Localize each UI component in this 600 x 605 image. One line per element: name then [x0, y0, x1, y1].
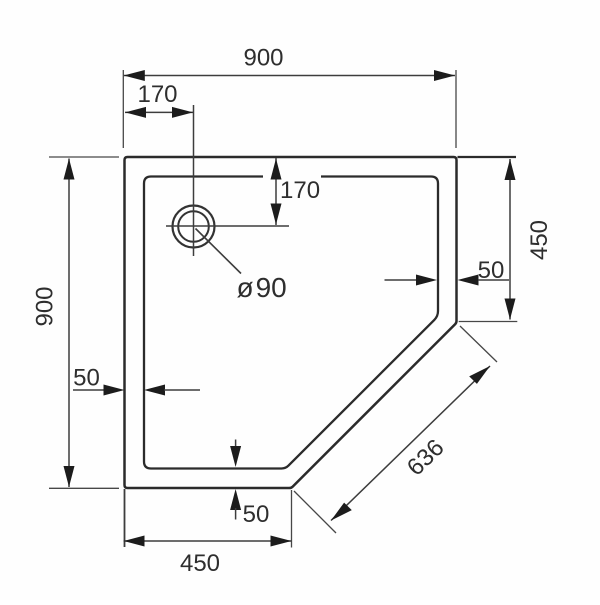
- dim 50 left: tail left: [73, 389, 107, 391]
- svg-text:450: 450: [180, 550, 220, 577]
- dim 50 bottom: tail top: [235, 440, 237, 450]
- dim 900 left: top arrow: [64, 159, 75, 180]
- dim 900 left: extension top: [49, 156, 119, 158]
- dim 50 left: right arrow: [144, 385, 165, 396]
- dim 900 top: left arrow: [124, 70, 145, 81]
- dim 50 bottom: bottom arrow: [230, 489, 241, 510]
- dim 900 top: extension right: [455, 70, 457, 148]
- dim 50 right: right arrow: [458, 275, 479, 286]
- tray inner outline (gap in top edge for dimension): [144, 177, 438, 469]
- dim 50 left: left arrow: [104, 385, 125, 396]
- drain leader line: [196, 229, 242, 274]
- dim 900 left: bottom arrow: [64, 466, 75, 487]
- dim 450 bottom: line: [124, 540, 292, 542]
- dim 50 right: tail left: [385, 279, 419, 281]
- dim 450 right: extension bottom: [459, 321, 518, 323]
- dim 900 top: right arrow: [434, 70, 455, 81]
- dim 50 bottom: tail bottom: [235, 508, 237, 520]
- svg-text:ø90: ø90: [237, 272, 287, 303]
- dim 450 right: extension top (edge continuation): [458, 156, 517, 158]
- drain vertical centerline: [193, 105, 195, 256]
- dim 900 top: extension left: [122, 70, 124, 148]
- svg-text:50: 50: [478, 257, 505, 284]
- svg-text:900: 900: [243, 45, 283, 72]
- svg-text:50: 50: [73, 365, 100, 392]
- dim 900 top: line: [124, 75, 455, 77]
- dim 170 top: right arrow: [172, 107, 193, 118]
- dim 50 left: tail right: [164, 389, 200, 391]
- dim 636 diagonal: extension bottom: [294, 491, 336, 533]
- dim 450 bottom: extension right: [291, 490, 293, 548]
- dim 900 left: line: [68, 159, 70, 488]
- dim 170 top: left arrow: [125, 107, 146, 118]
- svg-text:170: 170: [280, 177, 320, 204]
- svg-text:450: 450: [526, 220, 553, 260]
- drain inner circle: [178, 211, 209, 242]
- svg-text:50: 50: [243, 501, 270, 528]
- dim 636 diagonal: upper arrow: [469, 366, 490, 384]
- dim 170 vertical: line: [275, 158, 277, 225]
- tray outer outline: [125, 157, 457, 488]
- dim 450 bottom: left arrow: [124, 536, 145, 547]
- dim 450 bottom: right arrow: [271, 536, 292, 547]
- dim 900 left: extension bottom: [49, 487, 119, 489]
- dim 450 bottom: extension left (edge continuation): [124, 489, 126, 547]
- dim 170 top: line: [125, 111, 193, 113]
- dim 50 right: tail right: [478, 279, 509, 281]
- svg-text:900: 900: [32, 286, 59, 326]
- dim 636 diagonal: extension top: [460, 326, 497, 362]
- dim 450 right: line: [509, 159, 511, 320]
- dim 450 right: bottom arrow: [505, 299, 516, 320]
- svg-text:170: 170: [137, 81, 177, 108]
- dim 50 right: left arrow: [416, 275, 437, 286]
- dim 170 vertical: top arrow: [271, 159, 282, 180]
- drain horizontal centerline: [166, 225, 289, 227]
- dim 50 bottom: top arrow: [230, 446, 241, 467]
- drain outer circle: [173, 206, 215, 248]
- dim 170 vertical: bottom arrow: [271, 204, 282, 225]
- dim 450 right: top arrow: [505, 159, 516, 180]
- dim 636 diagonal: line: [331, 366, 490, 521]
- dim 636 diagonal: lower arrow: [331, 503, 352, 521]
